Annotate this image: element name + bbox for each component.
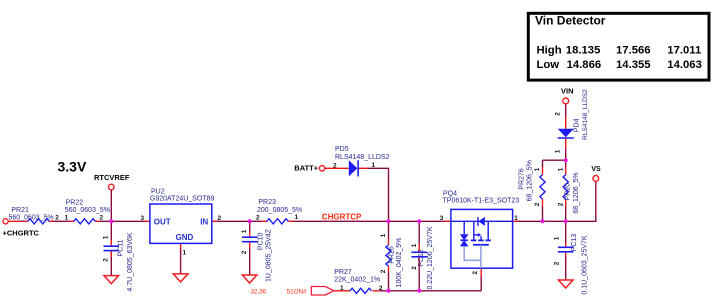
svg-text:2: 2: [241, 250, 248, 254]
svg-text:+CHGRTC: +CHGRTC: [3, 228, 40, 237]
svg-text:68_1206_5%: 68_1206_5%: [527, 160, 534, 201]
svg-text:2: 2: [411, 266, 418, 270]
svg-text:1: 1: [555, 149, 562, 153]
svg-text:1: 1: [340, 285, 344, 292]
svg-text:PU2: PU2: [151, 189, 165, 196]
svg-text:17.566: 17.566: [616, 44, 651, 56]
svg-text:2: 2: [380, 269, 387, 273]
svg-text:1: 1: [534, 167, 541, 171]
svg-text:1: 1: [380, 233, 387, 237]
svg-text:PR20: PR20: [565, 183, 572, 201]
svg-text:1: 1: [554, 236, 561, 240]
svg-text:3.3V: 3.3V: [58, 159, 87, 175]
svg-text:PR23: PR23: [258, 199, 276, 206]
svg-text:3: 3: [141, 215, 145, 222]
svg-text:2: 2: [554, 261, 561, 265]
svg-text:G920AT24U_SOT89: G920AT24U_SOT89: [150, 196, 215, 203]
svg-text:PC11: PC11: [118, 239, 125, 256]
svg-text:0.22U_1206_25V7K: 0.22U_1206_25V7K: [427, 226, 434, 289]
svg-text:VS: VS: [591, 166, 601, 173]
svg-text:14.063: 14.063: [667, 59, 702, 71]
svg-text:PR276: PR276: [519, 168, 526, 190]
svg-text:2: 2: [100, 215, 104, 222]
svg-text:PC13: PC13: [571, 234, 578, 252]
svg-text:1: 1: [103, 235, 110, 239]
svg-text:OUT: OUT: [154, 217, 171, 226]
svg-text:1: 1: [514, 215, 518, 222]
svg-text:2: 2: [103, 258, 110, 262]
svg-text:1: 1: [558, 167, 565, 171]
svg-text:RTCVREF: RTCVREF: [94, 173, 130, 182]
svg-text:PD4: PD4: [574, 118, 581, 132]
svg-text:RLS4148_LLDS2: RLS4148_LLDS2: [335, 154, 390, 161]
svg-text:BATT+: BATT+: [294, 164, 318, 173]
svg-text:CHGRTCP: CHGRTCP: [322, 213, 362, 222]
svg-text:2: 2: [558, 202, 565, 206]
svg-text:2: 2: [379, 285, 383, 292]
svg-text:14.866: 14.866: [567, 59, 602, 71]
svg-text:2: 2: [55, 215, 59, 222]
svg-text:14.355: 14.355: [616, 59, 651, 71]
svg-text:18.135: 18.135: [566, 44, 601, 56]
svg-text:RLS4148_LLDS2: RLS4148_LLDS2: [582, 89, 589, 140]
svg-text:22K_0402_1%: 22K_0402_1%: [334, 277, 380, 284]
svg-text:2: 2: [534, 202, 541, 206]
svg-text:1U_0805_25V4Z: 1U_0805_25V4Z: [265, 228, 272, 282]
svg-text:1: 1: [241, 229, 248, 233]
svg-text:PR21: PR21: [11, 207, 29, 214]
svg-text:200_0805_5%: 200_0805_5%: [257, 207, 302, 214]
svg-text:560_0603_5%: 560_0603_5%: [65, 207, 110, 214]
svg-text:0.1U_0603_25V7K: 0.1U_0603_25V7K: [582, 235, 589, 294]
svg-text:High: High: [537, 44, 562, 56]
svg-text:TP0610K-T1-E3_SOT23: TP0610K-T1-E3_SOT23: [443, 197, 520, 204]
svg-text:PR26: PR26: [389, 246, 396, 264]
svg-text:PR22: PR22: [66, 200, 84, 207]
svg-text:VIN: VIN: [561, 87, 574, 96]
svg-text:4.7U_0805_63V6K: 4.7U_0805_63V6K: [127, 232, 134, 291]
svg-text:2: 2: [333, 162, 337, 169]
svg-text:PR27: PR27: [334, 269, 352, 276]
svg-text:560_0603_5%: 560_0603_5%: [9, 214, 54, 221]
svg-text:1: 1: [372, 162, 376, 169]
svg-text:Low: Low: [537, 59, 560, 71]
svg-text:PC12: PC12: [418, 249, 425, 267]
svg-text:68_1206_5%: 68_1206_5%: [573, 172, 580, 213]
svg-text:51ON#: 51ON#: [287, 289, 307, 296]
svg-text:PD5: PD5: [335, 146, 349, 153]
svg-text:1: 1: [183, 250, 187, 257]
svg-text:PC10: PC10: [258, 232, 265, 250]
svg-text:3: 3: [440, 215, 444, 222]
svg-text:100K_0402_5%: 100K_0402_5%: [396, 238, 403, 288]
svg-text:IN: IN: [200, 217, 208, 226]
svg-text:1: 1: [65, 215, 69, 222]
svg-text:2: 2: [555, 112, 562, 116]
svg-text:32,36: 32,36: [250, 289, 266, 296]
svg-text:1: 1: [411, 243, 418, 247]
svg-text:1: 1: [295, 214, 299, 221]
svg-text:2: 2: [218, 215, 222, 222]
svg-text:17.011: 17.011: [667, 44, 701, 56]
svg-text:2: 2: [472, 271, 479, 275]
svg-text:Vin Detector: Vin Detector: [535, 14, 606, 28]
svg-text:2: 2: [256, 215, 260, 222]
svg-text:GND: GND: [176, 233, 194, 242]
